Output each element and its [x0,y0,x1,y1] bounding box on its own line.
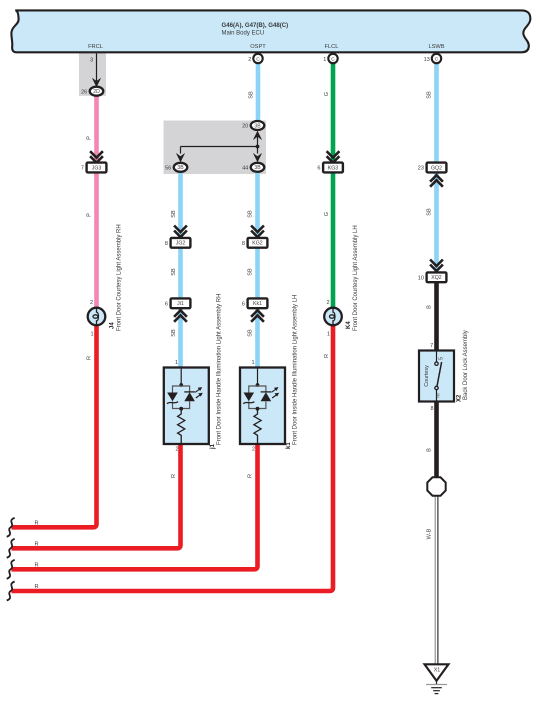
svg-text:1: 1 [327,332,330,338]
svg-text:R: R [171,474,177,478]
svg-text:X1: X1 [434,668,441,674]
svg-text:Back Door Lock Assembly: Back Door Lock Assembly [463,330,469,400]
svg-text:k1: k1 [286,442,292,449]
svg-text:26: 26 [81,89,87,95]
svg-text:2D: 2D [93,89,100,95]
svg-text:B: B [427,448,433,452]
svg-text:2: 2 [90,300,93,306]
svg-text:GQ2: GQ2 [431,165,442,171]
svg-text:Front Door Inside Handle Illum: Front Door Inside Handle Illumination Li… [217,294,223,445]
svg-text:SB: SB [171,268,177,276]
svg-text:3B: 3B [254,165,261,171]
svg-text:R: R [34,541,38,547]
svg-text:Front Door Courtesy Light Asse: Front Door Courtesy Light Assembly RH [116,224,122,331]
svg-text:1: 1 [323,57,326,63]
svg-text:8: 8 [430,406,433,412]
svg-text:JG3: JG3 [92,165,102,171]
svg-text:SB: SB [248,91,254,99]
svg-text:P: P [86,213,92,217]
svg-text:5: 5 [439,357,445,360]
svg-text:R: R [34,520,38,526]
svg-text:K4: K4 [346,321,352,329]
svg-text:R: R [324,354,330,358]
svg-text:R: R [248,474,254,478]
svg-text:Front Door Inside Handle Illum: Front Door Inside Handle Illumination Li… [293,295,299,445]
svg-text:OSPT: OSPT [250,44,266,50]
svg-text:SB: SB [248,268,254,276]
svg-text:3B: 3B [254,123,261,129]
svg-text:1: 1 [175,360,178,366]
svg-text:G46(A), G47(B), G48(C): G46(A), G47(B), G48(C) [222,22,289,29]
svg-text:10: 10 [418,275,424,281]
svg-text:J4: J4 [110,322,116,329]
svg-text:44: 44 [242,165,248,171]
svg-text:2: 2 [175,447,178,453]
svg-text:56: 56 [165,165,171,171]
svg-text:G: G [324,212,330,216]
svg-text:6: 6 [242,301,245,307]
svg-text:7: 7 [81,166,84,172]
svg-text:3: 3 [90,58,93,64]
svg-text:8: 8 [242,241,245,247]
svg-text:X2: X2 [457,394,463,402]
svg-text:JG2: JG2 [176,241,186,247]
svg-text:C: C [435,56,439,62]
svg-text:W-B: W-B [426,528,432,539]
svg-text:6: 6 [165,301,168,307]
svg-text:Courtesy: Courtesy [424,365,430,387]
svg-text:SB: SB [248,210,254,218]
svg-text:SB: SB [427,91,433,99]
svg-text:R: R [86,356,92,360]
svg-text:23: 23 [418,166,424,172]
svg-text:SB: SB [427,208,433,216]
svg-text:R: R [34,584,38,590]
svg-text:FRCL: FRCL [88,44,103,50]
svg-text:B: B [427,305,433,309]
svg-text:Ji1: Ji1 [177,301,184,307]
svg-text:SB: SB [171,210,177,218]
svg-text:m: m [436,393,442,397]
svg-text:P: P [86,136,92,140]
svg-text:C: C [256,56,260,62]
svg-text:2: 2 [252,447,255,453]
svg-text:6: 6 [317,166,320,172]
svg-text:2: 2 [248,57,251,63]
svg-text:1: 1 [90,332,93,338]
svg-text:SB: SB [171,329,177,337]
svg-text:13: 13 [424,57,430,63]
svg-text:3B: 3B [177,165,184,171]
svg-text:C: C [331,56,335,62]
svg-text:XQ2: XQ2 [431,275,441,281]
svg-text:LSWB: LSWB [428,44,444,50]
svg-text:FLCL: FLCL [325,44,339,50]
svg-text:Front Door Courtesy Light Asse: Front Door Courtesy Light Assembly LH [353,225,359,331]
svg-text:Kk1: Kk1 [253,301,262,307]
svg-text:SB: SB [248,329,254,337]
svg-text:7: 7 [430,343,433,349]
svg-text:Main Body ECU: Main Body ECU [222,30,265,36]
svg-text:2: 2 [326,300,329,306]
svg-text:8: 8 [165,241,168,247]
svg-text:1: 1 [251,360,254,366]
svg-text:j1: j1 [210,443,216,450]
svg-text:KG2: KG2 [252,241,262,247]
svg-text:R: R [34,562,38,568]
svg-text:20: 20 [242,124,248,130]
svg-text:KG3: KG3 [328,165,338,171]
svg-text:G: G [324,92,330,96]
